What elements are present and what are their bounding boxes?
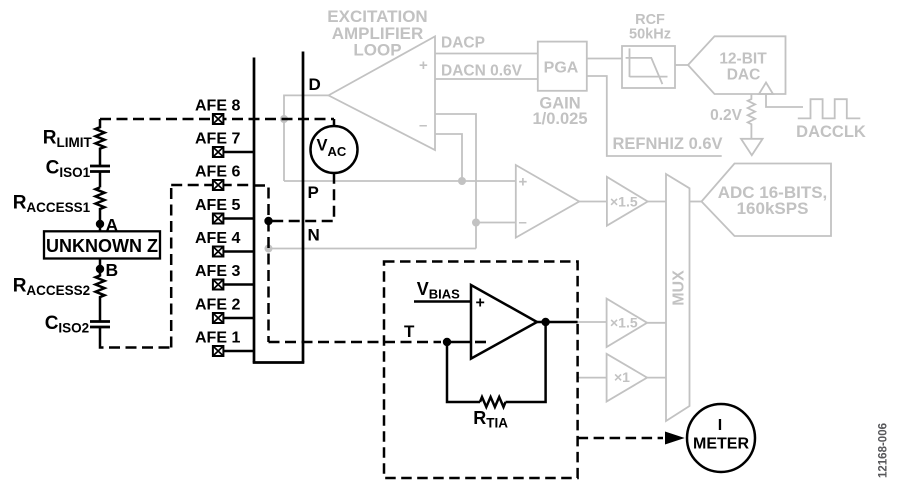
wire DACP [435, 53, 538, 55]
svg-text:0.2V: 0.2V [710, 107, 743, 124]
wire TIA output to x1.5 lower (gray part) [578, 321, 607, 323]
junction D on AFE8 row (gray) [280, 115, 288, 123]
svg-text:N: N [308, 226, 320, 245]
svg-text:×1.5: ×1.5 [610, 315, 638, 331]
svg-text:AFE 2: AFE 2 [195, 297, 240, 314]
capacitor CISO1 [90, 151, 110, 187]
label GAIN 1/0.025 [532, 95, 587, 129]
svg-text:–: – [419, 117, 427, 134]
node D label [309, 75, 321, 94]
AC source VAC [311, 126, 358, 173]
wire T to op-amp inverting input [447, 341, 471, 344]
node N label [308, 226, 320, 245]
wire PGA to RCF [587, 58, 622, 60]
reference down arrow [741, 139, 763, 155]
junction buffer inverting tap (gray) [472, 219, 480, 227]
svg-text:160kSPS: 160kSPS [737, 199, 809, 218]
svg-text:MUX: MUX [671, 270, 688, 306]
feedback wire left [447, 342, 480, 402]
amplifier x1.5 lower (gray) [607, 299, 648, 347]
svg-text:×1.5: ×1.5 [610, 194, 638, 210]
label RACCESS2 [13, 276, 91, 299]
wire TIA output [537, 321, 578, 324]
wire dashed AFE8 row [100, 118, 334, 121]
wire RCF to DAC [675, 64, 688, 66]
label 0.2V [710, 107, 743, 124]
svg-text:+: + [476, 295, 485, 312]
switch AFE8 [195, 98, 240, 125]
switch AFE1 [195, 330, 254, 357]
label REFNHIZ 0.6V [613, 135, 723, 153]
svg-text:REFNHIZ 0.6V: REFNHIZ 0.6V [613, 135, 723, 153]
svg-text:AFE 6: AFE 6 [195, 164, 240, 181]
dashed measurement box [384, 262, 578, 479]
filter RCF [622, 46, 675, 88]
resistor RTIA [480, 397, 506, 407]
svg-text:AFE 3: AFE 3 [195, 263, 240, 280]
op-amp buffer (gray) [516, 165, 579, 238]
wire P row from loop to buffer + (gray) [284, 180, 516, 182]
wire VBIAS to op-amp [414, 300, 471, 303]
svg-text:DACN 0.6V: DACN 0.6V [441, 63, 523, 80]
wire dashed AFE6 to T row column [254, 186, 269, 343]
wire excitation feedback to N row (gray) [435, 114, 476, 249]
op-amp excitation amplifier (gray) [329, 36, 436, 150]
figure number 12168-006 [878, 423, 890, 478]
junction T [443, 338, 451, 346]
svg-text:50kHz: 50kHz [629, 27, 671, 43]
bus bottom joint [253, 361, 305, 364]
bus left rail [253, 58, 256, 363]
junction P/N dashed column [264, 217, 272, 225]
svg-text:+: + [419, 57, 428, 74]
wire N row (gray) [269, 248, 477, 250]
svg-text:UNKNOWN Z: UNKNOWN Z [46, 236, 158, 256]
svg-text:METER: METER [693, 436, 749, 453]
svg-text:AFE 1: AFE 1 [195, 330, 240, 347]
capacitor CISO2 [90, 302, 110, 340]
wire x1.5 lower to MUX [647, 322, 666, 324]
feedback wire right [506, 322, 546, 402]
wire x1 to MUX [647, 377, 666, 379]
svg-text:B: B [106, 260, 119, 280]
wire dashed to current meter [578, 437, 663, 440]
resistor RLIMIT [96, 119, 105, 151]
label DACP [441, 35, 485, 52]
op-amp TIA [471, 285, 537, 359]
svg-text:LOOP: LOOP [353, 41, 401, 60]
switch AFE6 [195, 164, 240, 191]
svg-text:1/0.025: 1/0.025 [532, 110, 587, 128]
svg-text:AFE 4: AFE 4 [195, 230, 240, 247]
label CISO1 [46, 158, 91, 181]
svg-text:DACP: DACP [441, 35, 485, 52]
label RLIMIT [43, 128, 93, 151]
wire dashed AFE6 row [171, 184, 254, 187]
bus right rail [302, 52, 305, 363]
junction on P row (gray) [458, 177, 466, 185]
switch AFE5 [195, 197, 254, 224]
unknown impedance box [44, 224, 160, 259]
wire dashed CISO2 bottom to AFE6 row [100, 185, 171, 348]
clock input arrow on DAC [759, 83, 773, 95]
wire excitation output to node D (gray) [284, 95, 329, 181]
label RCF 50kHz [629, 12, 671, 43]
wire dashed VAC top [333, 119, 336, 127]
amplifier x1 (gray) [607, 354, 648, 402]
svg-text:AFE 7: AFE 7 [195, 131, 240, 148]
label RACCESS1 [13, 193, 91, 216]
svg-text:PGA: PGA [544, 60, 579, 77]
svg-text:DAC: DAC [727, 67, 761, 84]
wire dashed T row [269, 341, 442, 344]
svg-text:+: + [519, 174, 528, 191]
label DACN 0.6V [441, 63, 523, 80]
label RTIA [473, 408, 508, 431]
wire dashed VAC bottom to junction [269, 173, 335, 221]
junction N on dashed column (gray) [265, 245, 273, 253]
wire excitation inverting sense (gray) [435, 134, 462, 181]
wire PGA to REFNHIZ node [587, 76, 722, 156]
wire MUX to ADC [690, 201, 702, 203]
wire buffer inverting input (gray) [476, 222, 516, 224]
current meter [687, 404, 755, 472]
switch AFE7 [195, 131, 254, 158]
arrowhead to meter [665, 432, 685, 445]
svg-text:P: P [308, 183, 319, 202]
svg-text:12-BIT: 12-BIT [719, 51, 767, 68]
switch AFE3 [195, 263, 254, 290]
svg-text:×1: ×1 [614, 369, 630, 385]
resistor RACCESS1 [96, 187, 105, 224]
junction TIA output [541, 318, 549, 326]
wire into x1 (gray) [578, 377, 607, 379]
svg-text:12168-006: 12168-006 [878, 423, 890, 478]
svg-text:DACCLK: DACCLK [796, 123, 866, 141]
wire DACN [435, 78, 538, 80]
amplifier x1.5 upper (gray) [607, 177, 648, 226]
DAC 12-bit [688, 36, 786, 94]
svg-text:I: I [718, 417, 722, 434]
wire x1.5 upper to MUX [648, 201, 666, 203]
label VBIAS [417, 279, 460, 302]
label excitation amplifier loop [327, 7, 427, 60]
switch AFE4 [195, 230, 254, 257]
resistor RACCESS2 [96, 269, 105, 302]
node P label [308, 183, 319, 202]
node B [96, 259, 118, 281]
PGA box [538, 42, 587, 91]
DACCLK waveform [798, 99, 861, 118]
switch AFE2 [195, 297, 254, 324]
MUX [666, 174, 690, 421]
label CISO2 [45, 313, 89, 336]
svg-text:AFE 5: AFE 5 [195, 197, 240, 214]
svg-text:–: – [519, 214, 527, 231]
node A [96, 215, 119, 235]
wire DAC to DACCLK [766, 94, 803, 107]
label DACCLK [796, 123, 866, 141]
svg-text:D: D [309, 75, 321, 94]
svg-text:T: T [404, 322, 415, 341]
wire buffer output [579, 201, 607, 203]
resistor 0.2V [748, 94, 755, 139]
svg-text:AFE 8: AFE 8 [195, 98, 240, 115]
ADC [702, 164, 832, 237]
node T label [404, 322, 415, 341]
